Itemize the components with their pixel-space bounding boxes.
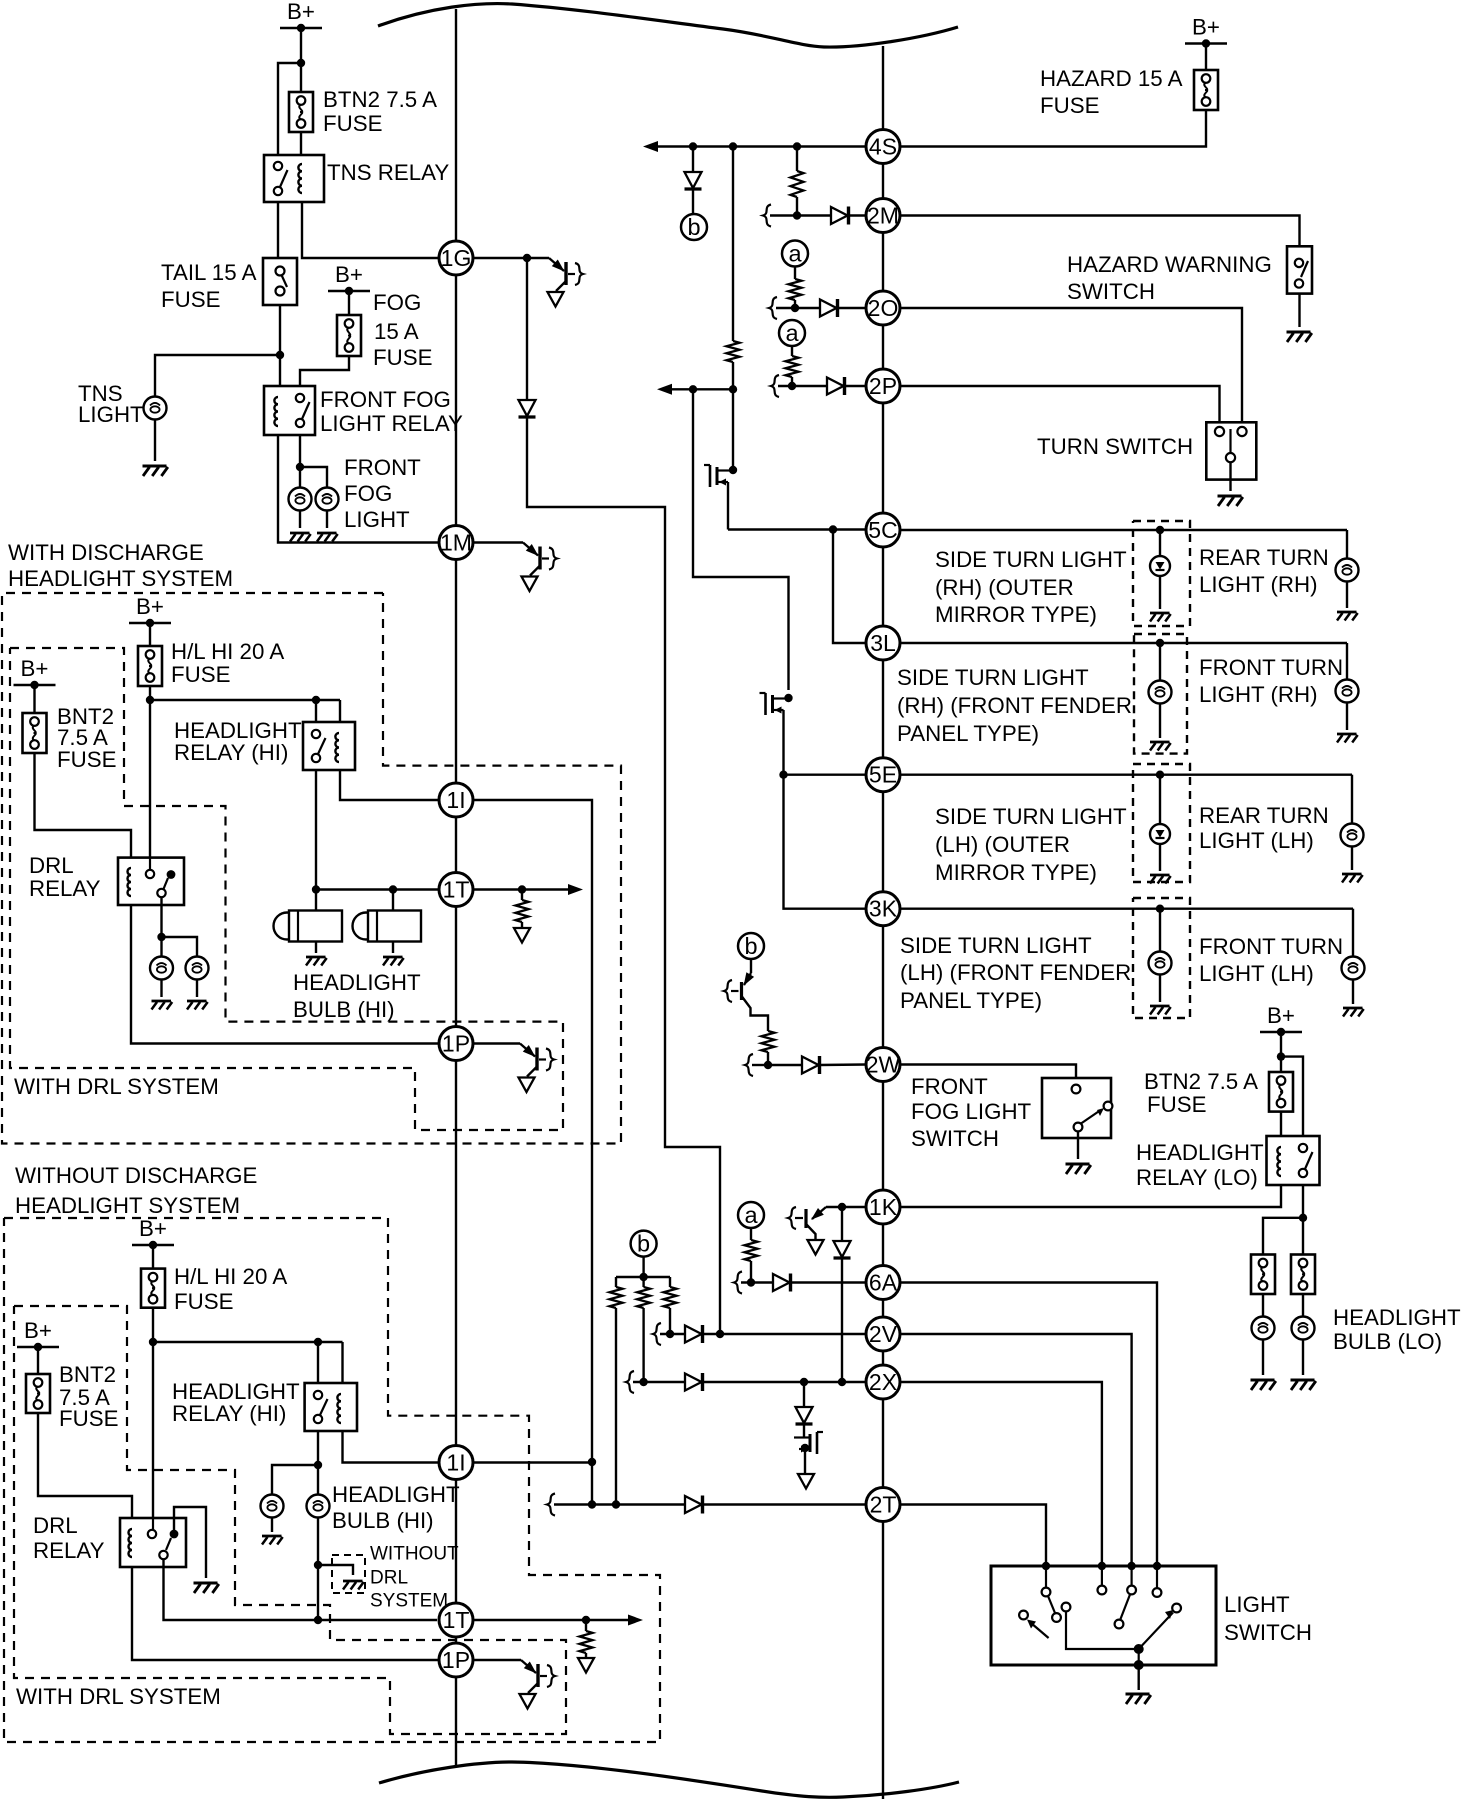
svg-text:2W: 2W <box>866 1052 901 1078</box>
wire emitter to resistor <box>742 996 769 1031</box>
to-ground arrow <box>522 577 538 592</box>
junction <box>276 351 284 359</box>
svg-text:BULB (HI): BULB (HI) <box>332 1508 434 1533</box>
diode (1K to 2X) <box>834 1241 851 1257</box>
arrow (1T line, section 2) <box>628 1615 643 1626</box>
wire b down <box>750 959 752 973</box>
wire to rear turn light LH <box>1351 775 1353 824</box>
wire 2P left segment <box>778 385 827 387</box>
svg-text:FUSE: FUSE <box>59 1406 118 1431</box>
svg-text:HEADLIGHT: HEADLIGHT <box>293 970 421 995</box>
wire fuse to relay coil <box>1280 1112 1282 1136</box>
svg-text:5E: 5E <box>869 762 897 788</box>
transistor driver <box>520 1044 535 1057</box>
svg-text:FRONT: FRONT <box>344 455 421 480</box>
switch TURN SWITCH <box>1206 422 1256 479</box>
wire <box>1159 974 1161 1002</box>
LED SIDE TURN LIGHT (RH) outer mirror <box>1150 556 1170 576</box>
node 1P <box>439 1027 473 1061</box>
ground (DRL relay) <box>194 1582 218 1585</box>
svg-text:LIGHT RELAY: LIGHT RELAY <box>320 411 463 436</box>
fuse HAZARD 15 A <box>1194 70 1218 110</box>
wire relay HI switch to bulbs <box>315 770 317 911</box>
ground (turn switch) <box>1218 495 1242 498</box>
bulb FRONT TURN LIGHT (LH) <box>1342 957 1365 980</box>
wire relay HI switch to bulbs <box>317 1431 319 1494</box>
svg-text:a: a <box>785 320 799 346</box>
wire BNT2 fuse to DRL relay coil <box>35 753 132 858</box>
node 2W <box>866 1048 900 1082</box>
dashed boundary (with DRL system, section 1) <box>10 648 563 1130</box>
wire B+ to BNT2 fuse <box>37 1347 39 1374</box>
svg-text:RELAY (HI): RELAY (HI) <box>174 740 288 765</box>
wire <box>521 922 523 928</box>
wire to LO fuse 1 <box>1263 1218 1303 1255</box>
svg-text:HEADLIGHT: HEADLIGHT <box>332 1482 460 1507</box>
node 5E <box>866 758 900 792</box>
dashed boundary (with discharge headlight system) <box>2 593 621 1144</box>
svg-text:LIGHT (RH): LIGHT (RH) <box>1199 572 1318 597</box>
junction <box>1127 1562 1135 1570</box>
fuse FOG 15 A <box>337 315 361 356</box>
svg-text:HAZARD 15 A: HAZARD 15 A <box>1040 66 1183 91</box>
svg-text:H/L HI 20 A: H/L HI 20 A <box>171 639 284 664</box>
svg-text:FUSE: FUSE <box>57 747 116 772</box>
wire 1K branch down <box>841 1207 843 1241</box>
wire DRL pivot to ground <box>174 1507 206 1578</box>
node 1I <box>439 783 473 817</box>
wire TAIL fuse down <box>279 305 281 386</box>
node a (flasher) <box>779 320 805 346</box>
ground (LO bulb 1) <box>1251 1379 1275 1382</box>
wire <box>326 511 328 528</box>
wire resistor to 6A line <box>750 1261 752 1283</box>
svg-text:LIGHT (LH): LIGHT (LH) <box>1199 961 1314 986</box>
junction <box>666 1330 674 1338</box>
wire resistor to 2P line <box>791 377 793 386</box>
svg-text:FUSE: FUSE <box>373 345 432 370</box>
wire <box>392 942 394 954</box>
switch HAZARD WARNING SWITCH <box>1287 246 1312 293</box>
wire to 5E <box>784 774 867 776</box>
wire 1P right <box>473 1042 520 1044</box>
wire to diode <box>692 147 694 173</box>
bulb (DRL) 1 <box>150 957 173 980</box>
bulb (DRL) 2 <box>186 957 209 980</box>
svg-text:RELAY (LO): RELAY (LO) <box>1136 1165 1258 1190</box>
diode (2M) <box>831 207 848 224</box>
ground (DRL bulb 2) <box>187 1000 207 1003</box>
node 2M <box>866 199 900 233</box>
svg-text:FUSE: FUSE <box>174 1289 233 1314</box>
wire diode to 2X line <box>841 1257 843 1382</box>
wire 1T left <box>316 888 439 890</box>
wire FOG fuse to relay switch <box>300 356 349 386</box>
ground (fog light switch) <box>1066 1163 1090 1166</box>
svg-text:(LH) (FRONT FENDER: (LH) (FRONT FENDER <box>900 960 1131 985</box>
wire diode to 2O <box>837 307 866 309</box>
wire <box>271 1518 273 1533</box>
svg-text:1K: 1K <box>869 1194 898 1220</box>
svg-text:SWITCH: SWITCH <box>1067 279 1155 304</box>
wire B+ to BNT2 fuse <box>33 685 35 713</box>
wire to front fog light 2 <box>300 467 327 487</box>
wire gate line <box>663 388 733 390</box>
wire 6A left segment <box>741 1281 773 1283</box>
wire <box>1159 844 1161 871</box>
wire to resistor <box>585 1620 587 1631</box>
diode (2O) <box>820 300 837 317</box>
svg-text:WITH DRL SYSTEM: WITH DRL SYSTEM <box>14 1074 219 1099</box>
wire <box>752 1064 768 1066</box>
bulb HEADLIGHT BULB (LO) 1 <box>1252 1317 1275 1340</box>
wire 1G to driver <box>473 257 549 259</box>
wire to front turn light LH <box>1352 909 1354 957</box>
svg-text:REAR TURN: REAR TURN <box>1199 545 1329 570</box>
wire <box>1262 1294 1264 1316</box>
bulb HEADLIGHT BULB (HI) 1 <box>261 1495 284 1518</box>
wire 2O left segment <box>776 307 820 309</box>
junction <box>829 525 837 533</box>
svg-text:a: a <box>744 1202 758 1228</box>
svg-text:HEADLIGHT: HEADLIGHT <box>1333 1305 1461 1330</box>
wire <box>1302 1339 1304 1375</box>
node 2O <box>866 291 900 325</box>
svg-text:FOG: FOG <box>373 290 421 315</box>
wire to front turn light RH <box>1346 643 1348 680</box>
continuation mark (2V) <box>653 1323 661 1345</box>
wire 1P right <box>473 1659 521 1661</box>
junction <box>1277 1052 1285 1060</box>
svg-text:2T: 2T <box>870 1492 897 1518</box>
transistor driver at 1G <box>549 258 564 271</box>
junction <box>639 1378 647 1386</box>
node a (flasher) <box>782 241 808 267</box>
to-ground arrow <box>519 1078 535 1093</box>
wire to without-DRL ground <box>318 1565 353 1575</box>
wire to relay switch <box>317 1342 319 1383</box>
bulb HEADLIGHT BULB (LO) 2 <box>1292 1317 1315 1340</box>
junction <box>838 1378 846 1386</box>
svg-text:LIGHT: LIGHT <box>78 402 144 427</box>
svg-text:B+: B+ <box>136 594 164 619</box>
continuation mark (2W) <box>745 1054 753 1076</box>
svg-text:HAZARD WARNING: HAZARD WARNING <box>1067 252 1272 277</box>
transistor driver <box>521 1660 536 1673</box>
bulb FRONT FOG LIGHT 1 <box>289 488 312 511</box>
svg-text:FRONT TURN: FRONT TURN <box>1199 655 1343 680</box>
wire resistor to 2X line <box>642 1308 644 1382</box>
svg-text:HEADLIGHT: HEADLIGHT <box>1136 1140 1264 1165</box>
wire to TNS relay switch <box>278 63 301 155</box>
wire resistor to 2T line <box>615 1308 617 1505</box>
svg-text:1G: 1G <box>441 245 472 271</box>
node 1P <box>439 1643 473 1677</box>
node 1T <box>439 1603 473 1637</box>
node b (flasher) <box>631 1231 657 1257</box>
node 4S <box>866 130 900 164</box>
junction <box>314 1616 322 1624</box>
wire resistor to 2M line <box>796 197 798 216</box>
bulb HEADLIGHT BULB (HI) 2 <box>307 1495 330 1518</box>
wire a to resistor <box>794 267 796 280</box>
svg-text:a: a <box>788 241 802 267</box>
wire 1T right <box>473 1619 637 1621</box>
fuse H/L HI 20 A <box>138 646 162 686</box>
svg-text:3L: 3L <box>870 630 896 656</box>
wire to MOSFET 1 drain <box>732 389 734 458</box>
wire to relay LO switch <box>1281 1057 1303 1136</box>
wire <box>160 979 162 997</box>
to-ground arrow (MOSFET 3) <box>798 1474 814 1489</box>
svg-text:SWITCH: SWITCH <box>1224 1620 1312 1645</box>
node a (flasher) <box>738 1202 764 1228</box>
wire to bulb 1 <box>272 1465 318 1494</box>
bottom boundary arc (control module) <box>379 1762 959 1797</box>
wire to headlight relay HI <box>153 1341 343 1343</box>
wire fuse down to DRL relay <box>152 1308 154 1518</box>
resistor <box>664 1287 677 1308</box>
wire to side turn light <box>1159 643 1161 681</box>
wire 4S branch to resistor <box>796 147 798 172</box>
junction <box>157 933 165 941</box>
wire stub (turn switch) <box>1241 422 1243 426</box>
ground (without DRL) <box>343 1580 363 1583</box>
svg-text:LIGHT (LH): LIGHT (LH) <box>1199 828 1314 853</box>
DRL relay pivot <box>167 870 176 879</box>
junction <box>389 885 397 893</box>
fuse TAIL 15 A <box>263 258 297 305</box>
svg-text:1I: 1I <box>446 1450 465 1476</box>
svg-text:HEADLIGHT SYSTEM: HEADLIGHT SYSTEM <box>15 1193 240 1218</box>
svg-text:5C: 5C <box>868 517 897 543</box>
wire a to resistor <box>791 346 793 356</box>
continuation mark (6A) <box>734 1272 742 1294</box>
svg-text:LIGHT: LIGHT <box>1224 1592 1290 1617</box>
svg-text:FOG: FOG <box>344 481 392 506</box>
node 5C <box>866 513 900 547</box>
wire TNS relay coil to 1G <box>302 202 439 258</box>
wire B+ to fuse <box>152 1245 154 1269</box>
wire <box>1262 1339 1264 1375</box>
wire emitter down <box>806 1224 816 1240</box>
wire TNS relay to TAIL fuse <box>277 202 279 258</box>
MOSFET Q3 <box>816 1432 819 1454</box>
svg-text:2P: 2P <box>869 373 897 399</box>
wire to side turn light <box>1159 775 1161 824</box>
svg-text:MIRROR TYPE): MIRROR TYPE) <box>935 602 1097 627</box>
dashed box (side turn light RH fender) <box>1134 634 1187 754</box>
ground (fog light 1) <box>290 532 310 535</box>
svg-text:b: b <box>637 1231 650 1257</box>
svg-text:WITHOUT DISCHARGE: WITHOUT DISCHARGE <box>15 1163 257 1188</box>
wire 1I right to vertical <box>473 1461 592 1463</box>
relay DRL RELAY <box>118 858 184 905</box>
ground (fog light 2) <box>317 532 337 535</box>
wire 2M left segment <box>770 214 831 216</box>
wire fog switch to ground <box>1077 1132 1079 1160</box>
ground <box>1342 873 1362 876</box>
svg-text:1P: 1P <box>442 1031 470 1057</box>
svg-text:PANEL TYPE): PANEL TYPE) <box>897 721 1039 746</box>
MOSFET Q2 <box>764 693 767 715</box>
svg-text:REAR TURN: REAR TURN <box>1199 803 1329 828</box>
fuse H/L HI 20 A (section 2) <box>141 1269 165 1308</box>
fuse BNT2 7.5 A (section 2) <box>26 1374 50 1413</box>
wire <box>642 1277 644 1287</box>
svg-text:SWITCH: SWITCH <box>911 1126 999 1151</box>
svg-text:SIDE TURN LIGHT: SIDE TURN LIGHT <box>935 804 1127 829</box>
wire fuse down <box>149 686 151 700</box>
resistor <box>791 171 804 197</box>
junction <box>800 1378 808 1386</box>
junction (MOSFET 3) <box>801 1444 809 1452</box>
dashed box (side turn light LH fender) <box>1133 898 1190 1018</box>
wire turn switch to ground <box>1229 462 1231 491</box>
wire gate line to MOSFET 2 <box>693 389 789 690</box>
junction <box>582 1616 590 1624</box>
wire <box>669 1277 671 1287</box>
DRL relay pivot <box>170 1530 179 1539</box>
svg-text:BULB (HI): BULB (HI) <box>293 997 395 1022</box>
dashed box (side turn light LH outer) <box>1133 764 1190 882</box>
LED SIDE TURN LIGHT (LH) outer mirror <box>1150 824 1170 844</box>
to-ground arrow <box>548 292 564 307</box>
right bus wire (connector column 2) <box>882 46 884 1799</box>
wire 2T to light switch <box>900 1505 1046 1567</box>
node 1G <box>439 241 473 275</box>
node 1T <box>439 873 473 907</box>
ground (HI bulb) <box>262 1535 282 1538</box>
wire 2W left segment <box>768 1064 802 1066</box>
resistor <box>745 1240 758 1261</box>
junction <box>791 304 799 312</box>
ground (rear turn RH) <box>1337 611 1357 614</box>
wire 1G branch down <box>526 258 528 399</box>
ground <box>1343 1007 1363 1010</box>
relay TNS RELAY <box>264 155 324 202</box>
svg-text:15 A: 15 A <box>374 319 419 344</box>
svg-text:B+: B+ <box>1267 1003 1295 1028</box>
wire 1K to relay LO coil <box>900 1185 1281 1207</box>
continuation mark (2O) <box>769 297 777 319</box>
wire to rear turn light RH <box>1346 530 1348 559</box>
diode (6A) <box>773 1274 790 1291</box>
wire 1M to driver <box>473 541 523 543</box>
dashed boundary (without discharge headlight system) <box>4 1218 660 1742</box>
fuse BNT2 7.5 A <box>23 713 47 753</box>
wire 2P to turn switch <box>900 386 1220 422</box>
wire to TNS light <box>155 355 280 396</box>
bulb REAR TURN LIGHT (LH) <box>1341 824 1364 847</box>
svg-text:2V: 2V <box>869 1321 898 1347</box>
wire fog relay coil to 1M <box>278 435 439 543</box>
svg-text:TAIL 15 A: TAIL 15 A <box>161 260 257 285</box>
diode (2T) <box>685 1496 702 1513</box>
wire stub (turn switch) <box>1218 422 1220 426</box>
wire relay HI coil to 1I <box>340 770 439 800</box>
wire 5E right <box>900 774 1352 776</box>
transistor driver <box>523 543 538 556</box>
wire to relay coil <box>341 1342 343 1383</box>
wire 3L right <box>900 642 1347 644</box>
fuse BTN2 7.5 A <box>289 92 313 132</box>
svg-text:LIGHT (RH): LIGHT (RH) <box>1199 682 1318 707</box>
junction <box>146 696 154 704</box>
junction (light switch common) <box>1134 1644 1144 1654</box>
resistor <box>762 1031 775 1052</box>
resistor <box>580 1631 593 1653</box>
svg-text:FUSE: FUSE <box>1040 93 1099 118</box>
svg-text:1M: 1M <box>440 530 472 556</box>
diode (to b) <box>685 172 702 188</box>
fuse (headlight LO left) <box>1251 1255 1275 1295</box>
junction <box>793 211 801 219</box>
ground <box>1150 1005 1170 1008</box>
wire <box>1159 703 1161 738</box>
svg-text:FRONT TURN: FRONT TURN <box>1199 934 1343 959</box>
wire <box>615 1277 617 1287</box>
wire to headlight relay HI <box>150 699 340 701</box>
continuation mark (2P) <box>771 375 779 397</box>
wire to 5C <box>728 528 866 530</box>
wire resistor to 2W line <box>767 1052 769 1065</box>
svg-text:(LH) (OUTER: (LH) (OUTER <box>935 832 1070 857</box>
wire B+ down <box>1280 1032 1282 1072</box>
svg-text:1T: 1T <box>443 877 470 903</box>
junction <box>1042 1562 1050 1570</box>
diode (2X branch) <box>796 1407 813 1423</box>
resistor <box>727 341 740 362</box>
svg-text:BNT2: BNT2 <box>59 1362 116 1387</box>
svg-text:B+: B+ <box>24 1318 52 1343</box>
junction <box>764 1061 772 1069</box>
wire fuse to TNS relay coil <box>300 132 302 155</box>
svg-text:WITH DRL SYSTEM: WITH DRL SYSTEM <box>16 1684 221 1709</box>
wire 1T right <box>473 888 577 890</box>
svg-text:1I: 1I <box>446 787 465 813</box>
svg-text:DRL: DRL <box>370 1568 408 1589</box>
svg-text:TNS RELAY: TNS RELAY <box>327 160 449 185</box>
node 2V <box>866 1317 900 1351</box>
svg-text:FUSE: FUSE <box>161 287 220 312</box>
wire to resistor <box>521 890 523 901</box>
junction <box>639 1273 647 1281</box>
wire to side turn light <box>1159 530 1161 556</box>
ground (TNS light) <box>143 465 167 468</box>
ground (DRL bulb 1) <box>152 1000 172 1003</box>
svg-text:2O: 2O <box>868 295 899 321</box>
junction <box>1156 526 1164 534</box>
ground <box>1150 741 1170 744</box>
wire 2T left segment <box>554 1503 685 1505</box>
node 3K <box>866 892 900 926</box>
left bus wire (connector column 1) <box>455 9 457 1766</box>
junction <box>612 1500 620 1508</box>
junction <box>1134 1660 1144 1670</box>
svg-text:B+: B+ <box>287 0 315 24</box>
switch FRONT FOG LIGHT SWITCH <box>1042 1078 1111 1138</box>
junction <box>1098 1562 1106 1570</box>
wire diode to 2W <box>819 1063 866 1066</box>
ground (HI bulb 2) <box>383 956 403 959</box>
wire resistor to 2V line <box>669 1308 671 1334</box>
wire <box>196 979 198 997</box>
wire light switch to ground <box>1137 1665 1139 1690</box>
wire DRL relay coil to 1P <box>132 1567 439 1660</box>
wire MOSFET 3 source down <box>804 1448 806 1474</box>
wire 3K right <box>900 908 1353 910</box>
